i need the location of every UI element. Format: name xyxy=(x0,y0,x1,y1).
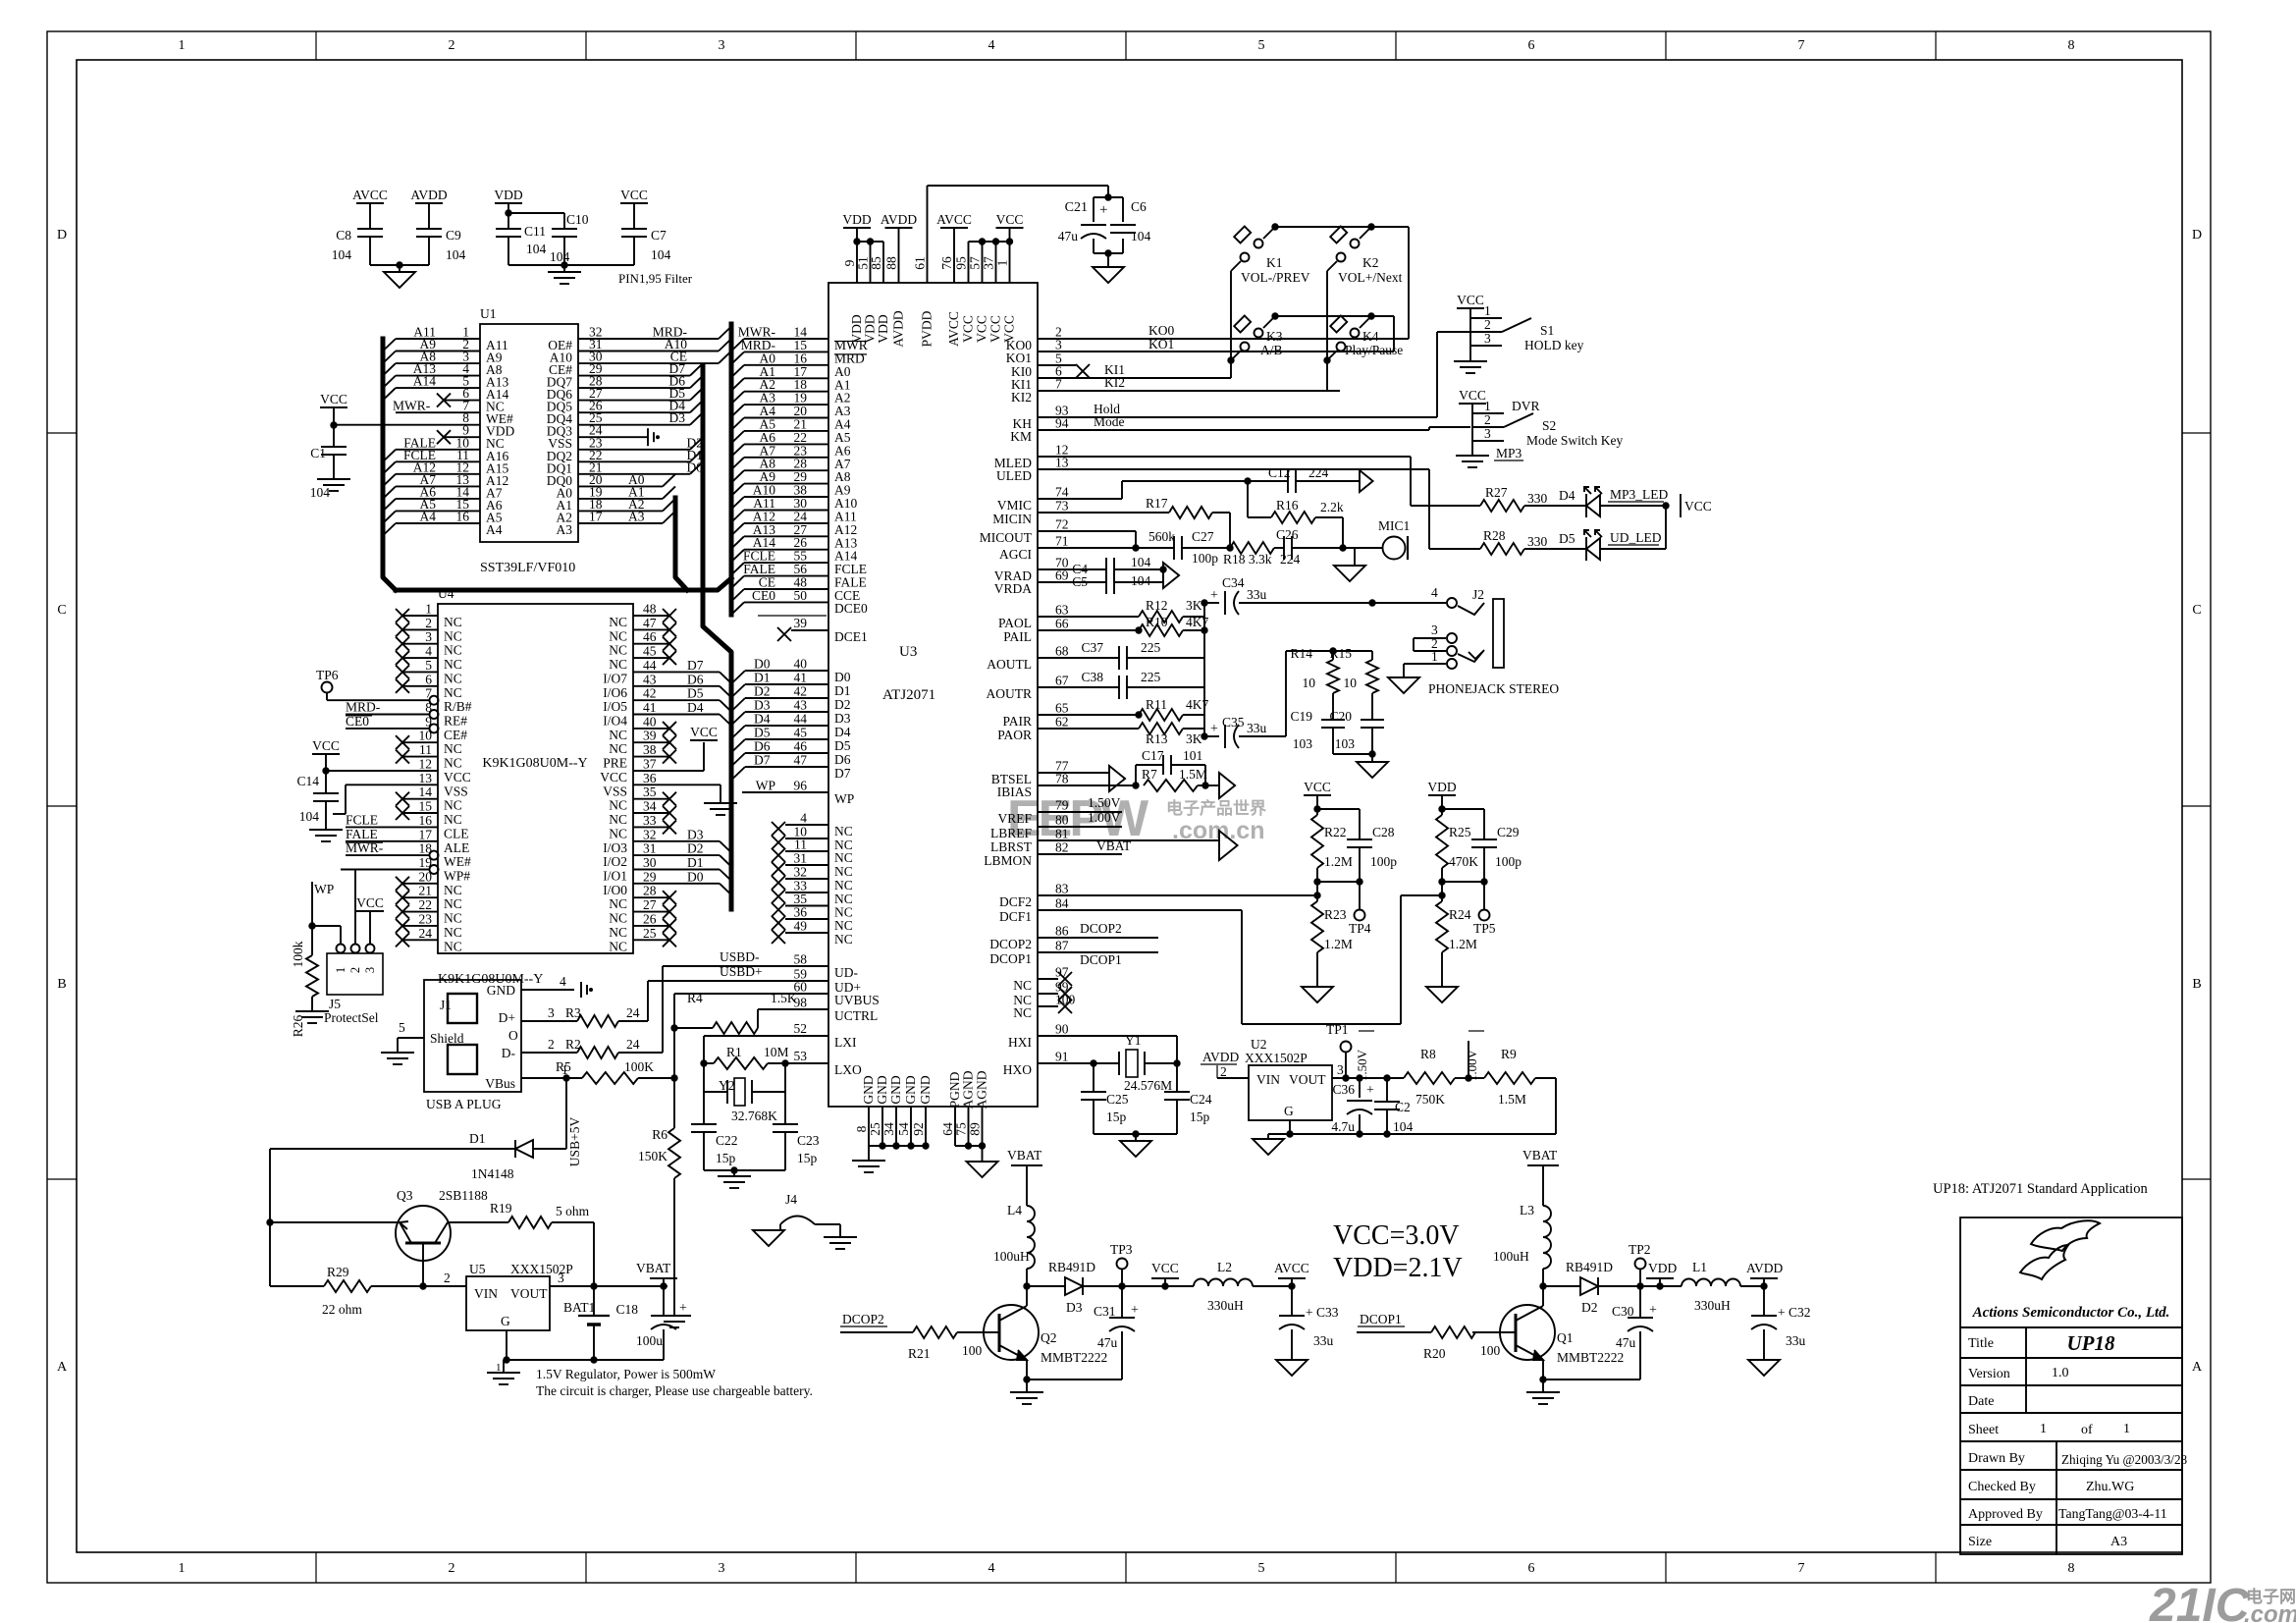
capacitor C8 xyxy=(357,228,383,230)
svg-text:VDD: VDD xyxy=(1648,1261,1677,1275)
svg-text:3K: 3K xyxy=(1186,598,1202,613)
svg-text:PHONEJACK STEREO: PHONEJACK STEREO xyxy=(1428,681,1559,696)
svg-text:L2: L2 xyxy=(1217,1260,1232,1274)
svg-text:104: 104 xyxy=(310,485,331,500)
svg-text:23: 23 xyxy=(419,911,433,926)
svg-text:NC: NC xyxy=(609,657,627,672)
U3 PVDD pin61 wire xyxy=(927,186,929,283)
svg-text:+: + xyxy=(1649,1303,1657,1318)
svg-text:DCOP2: DCOP2 xyxy=(842,1312,884,1326)
svg-text:24: 24 xyxy=(626,1005,640,1020)
svg-text:G: G xyxy=(501,1314,510,1328)
svg-text:3: 3 xyxy=(719,1561,725,1576)
svg-text:PIN1,95 Filter: PIN1,95 Filter xyxy=(618,271,693,286)
svg-text:87: 87 xyxy=(1055,939,1069,953)
wire HXI xyxy=(1038,1035,1177,1037)
wire MLED to R27 xyxy=(1038,456,1411,458)
svg-text:TP6: TP6 xyxy=(316,668,339,682)
U4 pin37 VCC xyxy=(633,770,704,772)
svg-text:DCF2: DCF2 xyxy=(999,894,1032,909)
svg-text:1: 1 xyxy=(179,38,186,53)
zone tick marks and labels xyxy=(315,31,317,60)
svg-text:MP3: MP3 xyxy=(1496,446,1522,460)
transistor Q1 MMBT2222 xyxy=(1500,1305,1555,1360)
ground xyxy=(753,1230,784,1246)
svg-text:UD-: UD- xyxy=(834,965,858,980)
svg-text:42: 42 xyxy=(643,686,657,701)
node xyxy=(1369,600,1375,606)
ground xyxy=(1302,987,1333,1002)
svg-text:88: 88 xyxy=(884,256,899,270)
svg-text:L3: L3 xyxy=(1520,1203,1534,1217)
svg-text:47: 47 xyxy=(794,753,808,768)
svg-text:VCC: VCC xyxy=(1304,780,1331,794)
svg-text:47u: 47u xyxy=(1058,229,1079,243)
svg-text:I/O6: I/O6 xyxy=(603,685,627,700)
svg-text:C8: C8 xyxy=(336,228,351,243)
svg-text:90: 90 xyxy=(1055,1022,1069,1037)
svg-text:MIC1: MIC1 xyxy=(1378,518,1410,533)
svg-text:LBREF: LBREF xyxy=(990,826,1033,840)
svg-text:C25: C25 xyxy=(1106,1092,1129,1107)
svg-text:K2: K2 xyxy=(1362,255,1379,270)
U4 pin19 WP# wire from J5 xyxy=(341,869,429,871)
svg-text:22: 22 xyxy=(419,897,433,912)
wire PAIL with resistor R10 4K7 xyxy=(1038,629,1139,631)
svg-text:NC: NC xyxy=(609,911,627,926)
svg-text:VCC: VCC xyxy=(975,315,989,343)
wire DCF1 xyxy=(1038,909,1242,911)
svg-text:USB+5V: USB+5V xyxy=(567,1117,582,1167)
svg-text:NC: NC xyxy=(609,939,627,953)
wire xyxy=(704,1169,785,1171)
ground xyxy=(1426,987,1458,1002)
svg-text:100: 100 xyxy=(1480,1343,1501,1358)
bottom rail xyxy=(504,1359,664,1361)
svg-text:62: 62 xyxy=(1055,715,1069,730)
wire LBMON VBAT xyxy=(1038,853,1122,855)
svg-text:VCC: VCC xyxy=(961,315,976,343)
svg-text:47u: 47u xyxy=(1616,1335,1636,1350)
test point TP2 xyxy=(1635,1259,1646,1270)
svg-text:4: 4 xyxy=(560,974,566,989)
svg-text:DVR: DVR xyxy=(1512,399,1540,413)
wire xyxy=(815,1223,840,1225)
svg-text:AVCC: AVCC xyxy=(946,311,961,347)
svg-text:C31: C31 xyxy=(1094,1304,1116,1319)
svg-text:R19: R19 xyxy=(490,1201,512,1216)
svg-text:R10: R10 xyxy=(1146,615,1168,629)
svg-text:15p: 15p xyxy=(716,1151,736,1165)
svg-text:UD_LED: UD_LED xyxy=(1610,530,1662,545)
svg-text:AGND: AGND xyxy=(961,1070,976,1109)
svg-text:A3: A3 xyxy=(2110,1535,2127,1549)
capacitor C7 xyxy=(621,228,647,230)
capacitor C22 15p xyxy=(691,1123,717,1125)
bus data D0-D7 xyxy=(703,365,731,909)
svg-text:2: 2 xyxy=(1484,412,1491,427)
svg-text:17: 17 xyxy=(419,827,433,841)
svg-text:C18: C18 xyxy=(615,1302,638,1317)
microphone MIC1 xyxy=(1343,547,1383,549)
wire LBRST xyxy=(1038,839,1219,841)
U4 pin36 VSS ground xyxy=(633,784,721,785)
svg-text:2: 2 xyxy=(444,1271,451,1285)
svg-text:D3: D3 xyxy=(834,711,851,726)
svg-text:57: 57 xyxy=(968,256,983,270)
wire xyxy=(1333,753,1372,755)
svg-text:4K7: 4K7 xyxy=(1186,697,1208,712)
svg-text:KM: KM xyxy=(1010,429,1032,444)
svg-text:B: B xyxy=(2192,977,2201,992)
ground xyxy=(1093,267,1124,283)
svg-text:VOL+/Next: VOL+/Next xyxy=(1338,270,1403,285)
svg-text:NC: NC xyxy=(609,826,627,840)
svg-text:AVCC: AVCC xyxy=(352,188,388,202)
ground xyxy=(1354,548,1356,566)
NAND flash U4 K9K1G08U0M-Y xyxy=(438,604,633,953)
wire VOUT xyxy=(550,1285,667,1287)
svg-text:I/O5: I/O5 xyxy=(603,699,627,714)
svg-text:3K: 3K xyxy=(1186,731,1202,746)
svg-text:+: + xyxy=(679,1301,687,1316)
svg-text:C20: C20 xyxy=(1329,709,1352,724)
svg-text:5: 5 xyxy=(425,658,432,673)
wire from D1 down xyxy=(269,1149,271,1286)
svg-text:D7: D7 xyxy=(687,658,704,673)
svg-text:J1: J1 xyxy=(440,998,452,1012)
svg-text:72: 72 xyxy=(1055,517,1069,532)
test point TP3 xyxy=(1117,1259,1128,1270)
svg-text:D3: D3 xyxy=(687,827,704,841)
svg-text:Zhu.WG: Zhu.WG xyxy=(2086,1480,2134,1494)
svg-text:C24: C24 xyxy=(1190,1092,1212,1107)
svg-text:330: 330 xyxy=(1527,534,1548,549)
wire DCOP2 net xyxy=(1038,937,1158,939)
svg-text:NC: NC xyxy=(444,911,462,926)
svg-text:Shield: Shield xyxy=(430,1031,464,1046)
node xyxy=(563,1075,569,1081)
wire xyxy=(1326,271,1328,391)
svg-text:VCC: VCC xyxy=(1684,499,1712,514)
svg-text:NC: NC xyxy=(444,925,462,940)
svg-text:7: 7 xyxy=(1798,38,1805,53)
svg-text:100p: 100p xyxy=(1370,854,1397,869)
svg-text:NC: NC xyxy=(444,643,462,658)
svg-text:WP#: WP# xyxy=(444,869,470,884)
svg-text:10: 10 xyxy=(1344,676,1358,690)
resistor R19 5 ohm xyxy=(448,1221,508,1223)
wire MICOUT xyxy=(1038,530,1136,532)
svg-text:74: 74 xyxy=(1055,485,1069,500)
svg-text:HXI: HXI xyxy=(1008,1035,1032,1050)
svg-text:R17: R17 xyxy=(1146,496,1168,511)
wire DCOP1 net xyxy=(1038,951,1158,953)
svg-text:D7: D7 xyxy=(834,766,851,781)
svg-text:XXX1502P: XXX1502P xyxy=(1245,1051,1308,1065)
svg-text:HOLD key: HOLD key xyxy=(1524,338,1584,352)
svg-text:71: 71 xyxy=(1055,534,1069,549)
svg-text:GND: GND xyxy=(487,983,515,998)
svg-text:I/O7: I/O7 xyxy=(603,671,627,685)
U3 pin96 WP xyxy=(742,791,828,793)
svg-text:100K: 100K xyxy=(624,1059,654,1074)
svg-text:75: 75 xyxy=(954,1122,969,1136)
svg-text:NC: NC xyxy=(609,643,627,658)
svg-text:C7: C7 xyxy=(651,228,667,243)
svg-text:G: G xyxy=(1284,1104,1294,1118)
svg-text:53: 53 xyxy=(794,1049,808,1063)
svg-text:MWR-: MWR- xyxy=(393,399,431,413)
svg-text:1.00V: 1.00V xyxy=(1465,1049,1479,1081)
svg-text:33: 33 xyxy=(643,813,657,828)
svg-text:Size: Size xyxy=(1968,1535,1992,1549)
svg-text:R22: R22 xyxy=(1324,825,1347,839)
wire KM to S2 xyxy=(1038,429,1429,431)
svg-text:100uH: 100uH xyxy=(1493,1249,1529,1264)
svg-text:32.768K: 32.768K xyxy=(731,1109,777,1123)
svg-text:R21: R21 xyxy=(908,1346,931,1361)
svg-text:.com: .com xyxy=(2244,1601,2296,1623)
svg-text:C11: C11 xyxy=(524,224,546,239)
node xyxy=(1340,545,1346,551)
svg-text:VDD=2.1V: VDD=2.1V xyxy=(1333,1253,1463,1283)
svg-text:VCC: VCC xyxy=(690,725,718,739)
capacitor C23 15p xyxy=(773,1123,798,1125)
svg-text:Play/Pause: Play/Pause xyxy=(1345,343,1403,357)
svg-text:33u: 33u xyxy=(1247,587,1267,602)
svg-text:A4: A4 xyxy=(486,522,503,537)
test point TP4 xyxy=(1359,882,1361,909)
flash U1 SST39LF/VF010 xyxy=(480,324,578,542)
svg-text:AVDD: AVDD xyxy=(891,310,906,348)
wire xyxy=(508,264,564,266)
ground xyxy=(487,1372,520,1374)
svg-text:D2: D2 xyxy=(1581,1300,1598,1315)
svg-text:AVCC: AVCC xyxy=(936,212,972,227)
svg-text:D: D xyxy=(57,228,67,243)
svg-text:Q3: Q3 xyxy=(397,1188,413,1203)
U3 pin50 DCE0 xyxy=(744,601,828,603)
svg-text:40: 40 xyxy=(794,657,808,672)
svg-text:VBAT: VBAT xyxy=(1096,839,1132,853)
svg-text:8: 8 xyxy=(2068,38,2075,53)
svg-text:43: 43 xyxy=(794,698,808,713)
svg-text:41: 41 xyxy=(643,700,657,715)
svg-text:5: 5 xyxy=(399,1020,405,1035)
svg-text:A3: A3 xyxy=(628,510,645,524)
svg-text:D4: D4 xyxy=(754,712,771,727)
svg-text:VBAT: VBAT xyxy=(1007,1148,1042,1163)
svg-text:8: 8 xyxy=(854,1125,869,1132)
bus main address to U3 xyxy=(729,324,734,615)
svg-text:104: 104 xyxy=(299,809,320,824)
svg-text:U2: U2 xyxy=(1251,1037,1267,1052)
svg-text:D2: D2 xyxy=(834,697,851,712)
svg-text:R5: R5 xyxy=(556,1059,571,1074)
wire xyxy=(1555,1078,1557,1134)
svg-text:+: + xyxy=(1131,1303,1139,1318)
svg-text:VDD: VDD xyxy=(1427,780,1456,794)
svg-text:VRDA: VRDA xyxy=(994,581,1033,596)
svg-text:1.50V: 1.50V xyxy=(1355,1049,1369,1081)
svg-text:U5: U5 xyxy=(469,1262,486,1276)
svg-text:1: 1 xyxy=(179,1561,186,1576)
svg-text:81: 81 xyxy=(1055,827,1069,841)
svg-text:PAOL: PAOL xyxy=(998,616,1032,630)
svg-text:39: 39 xyxy=(643,729,657,743)
svg-text:2: 2 xyxy=(1484,317,1491,332)
svg-text:USB A PLUG: USB A PLUG xyxy=(426,1097,502,1111)
svg-text:21IC: 21IC xyxy=(2149,1580,2251,1623)
svg-text:K9K1G08U0M--Y: K9K1G08U0M--Y xyxy=(482,756,587,771)
svg-text:5 ohm: 5 ohm xyxy=(556,1204,590,1218)
svg-text:40: 40 xyxy=(643,714,657,729)
svg-text:电子产品世界: 电子产品世界 xyxy=(1166,798,1266,818)
svg-text:Drawn By: Drawn By xyxy=(1968,1451,2025,1466)
svg-text:46: 46 xyxy=(643,629,657,644)
svg-text:D-: D- xyxy=(502,1046,516,1060)
wire BTSEL xyxy=(1038,772,1109,774)
svg-text:WE#: WE# xyxy=(444,854,471,869)
svg-text:1.2M: 1.2M xyxy=(1449,937,1477,951)
svg-text:D5: D5 xyxy=(1559,531,1575,546)
svg-text:I/O4: I/O4 xyxy=(603,714,627,729)
svg-text:D4: D4 xyxy=(834,725,851,739)
svg-text:100u: 100u xyxy=(636,1333,663,1348)
U1 pin25 D3 wire xyxy=(578,424,690,426)
node xyxy=(1663,503,1669,509)
svg-text:103: 103 xyxy=(1335,736,1356,751)
svg-text:R20: R20 xyxy=(1423,1346,1446,1361)
ground xyxy=(399,265,400,272)
svg-text:A/B: A/B xyxy=(1260,343,1283,357)
svg-text:560k: 560k xyxy=(1148,529,1175,544)
svg-text:34: 34 xyxy=(643,799,657,814)
svg-text:AGND: AGND xyxy=(975,1070,989,1109)
bus U1 right A0-A3 xyxy=(675,498,687,590)
svg-text:DCF1: DCF1 xyxy=(999,909,1032,924)
svg-text:AVCC: AVCC xyxy=(1274,1261,1309,1275)
svg-text:4: 4 xyxy=(425,644,432,659)
wire VMIC xyxy=(1038,498,1122,500)
svg-text:R6: R6 xyxy=(652,1127,667,1142)
svg-text:46: 46 xyxy=(794,739,808,754)
svg-text:1.2M: 1.2M xyxy=(1324,937,1353,951)
U4 pin13 VSS wire xyxy=(346,784,438,785)
svg-text:5: 5 xyxy=(1258,1561,1265,1576)
svg-text:AVDD: AVDD xyxy=(1746,1261,1784,1275)
svg-text:1.5K: 1.5K xyxy=(771,991,797,1005)
svg-text:NC: NC xyxy=(1013,1005,1032,1020)
svg-text:37: 37 xyxy=(643,757,657,772)
wire UVBUS down xyxy=(673,994,675,1078)
svg-text:+: + xyxy=(1210,722,1218,736)
svg-text:VCC: VCC xyxy=(620,188,648,202)
svg-text:13: 13 xyxy=(419,771,433,785)
svg-text:45: 45 xyxy=(643,644,657,659)
svg-text:L1: L1 xyxy=(1692,1260,1707,1274)
svg-text:D2: D2 xyxy=(687,841,704,856)
svg-text:31: 31 xyxy=(643,841,657,856)
svg-text:AGCI: AGCI xyxy=(999,547,1033,562)
svg-text:15p: 15p xyxy=(1190,1109,1210,1124)
svg-text:67: 67 xyxy=(1055,674,1069,688)
svg-text:D6: D6 xyxy=(687,672,704,686)
svg-text:80: 80 xyxy=(1055,813,1069,828)
svg-text:47: 47 xyxy=(643,616,657,630)
svg-text:84: 84 xyxy=(1055,896,1069,911)
svg-text:68: 68 xyxy=(1055,644,1069,659)
svg-text:MMBT2222: MMBT2222 xyxy=(1557,1350,1624,1365)
capacitor C25 15p xyxy=(1093,1063,1095,1092)
U4 pin12 VCC with C14 xyxy=(326,770,438,772)
svg-text:NC: NC xyxy=(609,812,627,827)
svg-text:750K: 750K xyxy=(1415,1092,1445,1107)
svg-text:42: 42 xyxy=(794,684,808,699)
svg-text:10: 10 xyxy=(1303,676,1316,690)
svg-text:PVDD: PVDD xyxy=(920,310,934,347)
svg-text:91: 91 xyxy=(1055,1050,1069,1064)
test point TP6 xyxy=(322,682,333,693)
svg-text:VSS: VSS xyxy=(603,784,627,798)
node xyxy=(1466,1075,1471,1081)
svg-text:45: 45 xyxy=(794,726,808,740)
svg-text:3: 3 xyxy=(363,967,377,973)
svg-text:NC: NC xyxy=(834,918,853,933)
svg-text:104: 104 xyxy=(1131,555,1151,569)
svg-text:MICIN: MICIN xyxy=(992,512,1032,526)
svg-text:1.2M: 1.2M xyxy=(1324,854,1353,869)
svg-text:KO1: KO1 xyxy=(1148,337,1174,352)
J1 pin1 VBus with resistor R5 100K xyxy=(521,1077,582,1079)
svg-text:61: 61 xyxy=(913,256,928,270)
U5 ground pin xyxy=(506,1330,507,1360)
svg-text:NC: NC xyxy=(609,615,627,629)
svg-text:Sheet: Sheet xyxy=(1968,1423,1999,1437)
svg-text:2.2k: 2.2k xyxy=(1320,500,1344,514)
svg-text:IBIAS: IBIAS xyxy=(997,784,1032,799)
capacitor C2 104 xyxy=(1386,1078,1388,1102)
svg-text:VDD: VDD xyxy=(842,212,871,227)
svg-text:VCC: VCC xyxy=(988,315,1003,343)
svg-text:D1: D1 xyxy=(469,1131,486,1146)
svg-text:15: 15 xyxy=(419,799,433,814)
svg-text:1: 1 xyxy=(425,602,432,617)
svg-text:37: 37 xyxy=(982,256,996,270)
svg-text:101: 101 xyxy=(1183,748,1202,763)
svg-text:R14: R14 xyxy=(1290,646,1312,661)
svg-text:3: 3 xyxy=(425,629,432,644)
svg-text:DCOP2: DCOP2 xyxy=(989,937,1032,951)
capacitor C14 xyxy=(313,792,339,794)
wire IBIAS xyxy=(1038,784,1136,786)
ground xyxy=(658,1315,691,1317)
svg-text:C17: C17 xyxy=(1142,748,1164,763)
svg-text:WP: WP xyxy=(314,882,334,896)
svg-text:CE0: CE0 xyxy=(752,588,775,603)
U1 pin24 VSS ground xyxy=(578,436,648,438)
svg-text:+: + xyxy=(1099,202,1107,218)
U4 pins16-18 labels xyxy=(346,826,438,828)
svg-text:WP: WP xyxy=(834,791,854,806)
svg-text:D3: D3 xyxy=(1066,1300,1083,1315)
svg-text:NC: NC xyxy=(444,798,462,813)
net arrow xyxy=(1360,470,1373,492)
svg-text:S2: S2 xyxy=(1542,418,1556,433)
svg-text:15p: 15p xyxy=(797,1151,818,1165)
svg-text:39: 39 xyxy=(794,616,808,630)
